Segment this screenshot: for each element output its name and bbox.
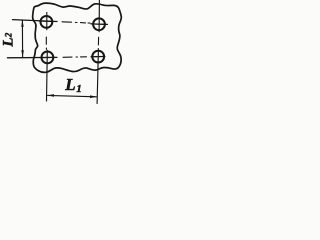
wire left vertical centerline dash-dot xyxy=(45,37,47,49)
plate outline (wavy freehand flange plate) xyxy=(33,3,122,72)
svg-text:L1: L1 xyxy=(64,75,81,95)
hole bottom-left (circle) xyxy=(42,52,54,64)
arrowhead L1 right xyxy=(90,95,97,98)
dimension L1 horizontal line xyxy=(48,95,97,96)
wire bottom horizontal centerline dash-dot segments xyxy=(63,56,87,59)
hole bottom-right (circle) xyxy=(92,51,104,63)
dimension L2 vertical line xyxy=(21,21,23,57)
wire right vertical centerline through top hole xyxy=(98,0,100,32)
arrowhead L1 left xyxy=(47,94,54,97)
hole bottom-left cross horizontal xyxy=(41,56,56,58)
wire top horizontal centerline solid left segment xyxy=(13,20,58,22)
hole top-left cross horizontal xyxy=(39,20,54,23)
wire bottom horizontal centerline solid left segment xyxy=(7,56,57,58)
hole top-right (circle) xyxy=(93,18,105,30)
wire left vertical centerline + L1 left extension line xyxy=(46,50,49,101)
hole top-right cross horizontal xyxy=(91,23,108,26)
arrowhead L2 up xyxy=(21,20,24,27)
arrowhead L2 down xyxy=(21,50,24,57)
hole top-left (circle) xyxy=(41,16,53,28)
wire bottom horizontal centerline through right hole xyxy=(91,55,105,57)
wire right vertical centerline + L1 right extension line xyxy=(97,50,98,103)
wire left vertical centerline through top hole xyxy=(46,12,48,29)
wire top horizontal centerline dash-dot segments xyxy=(62,22,90,23)
hole bottom-right cross horizontal xyxy=(91,56,105,58)
wire right vertical centerline dash-dot xyxy=(97,37,99,50)
wire top horizontal centerline through right hole xyxy=(91,23,108,26)
svg-text:L2: L2 xyxy=(1,32,17,47)
